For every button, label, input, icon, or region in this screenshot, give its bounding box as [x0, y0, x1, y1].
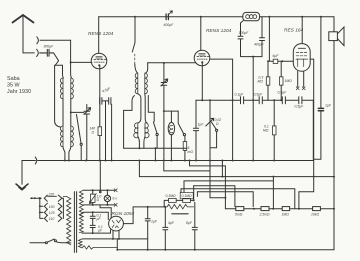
ground — [16, 184, 28, 189]
wire line y100 drop — [312, 100, 314, 159]
tap 125 — [44, 209, 61, 215]
svg-text:MΩ: MΩ — [263, 129, 269, 133]
staircase L2 — [139, 161, 334, 177]
wire tube1 leg — [99, 66, 101, 101]
wire L1a bottom down — [62, 99, 64, 126]
wire to coil3 top — [135, 64, 138, 73]
tap 150 — [44, 203, 61, 209]
rail after box — [260, 16, 334, 18]
svg-text:Jahr 1930: Jahr 1930 — [7, 89, 31, 95]
svg-text:0,1MΩ: 0,1MΩ — [182, 194, 193, 198]
svg-text:Ω: Ω — [92, 131, 95, 135]
switch antenna — [54, 53, 59, 66]
transformer core — [74, 192, 76, 253]
svg-text:RGN 1054: RGN 1054 — [112, 211, 135, 217]
boxed label outline — [180, 192, 193, 198]
svg-text:6µF: 6µF — [273, 54, 280, 58]
svg-text:125: 125 — [49, 211, 55, 215]
stub heater to tube top — [100, 205, 111, 218]
coil L1a — [60, 78, 63, 99]
svg-text:400µF: 400µF — [164, 23, 175, 27]
coil L4b — [145, 123, 149, 138]
svg-text:300µF: 300µF — [44, 45, 55, 49]
svg-text:220: 220 — [48, 193, 55, 197]
coil L3b — [145, 73, 148, 94]
resistor 2.5M — [261, 207, 269, 211]
svg-text:mΩ: mΩ — [188, 150, 194, 154]
RGN filament legs — [113, 230, 119, 239]
svg-text:RES 164: RES 164 — [284, 28, 304, 34]
IF secondary right with cap 400pF — [260, 17, 265, 57]
svg-text:10kΩ: 10kΩ — [311, 213, 319, 217]
IF transformer box — [243, 12, 260, 20]
selector 220 — [44, 195, 47, 201]
variable capacitor C-tune2 — [161, 63, 167, 111]
jack bus — [35, 157, 37, 164]
svg-text:1MΩ: 1MΩ — [282, 213, 290, 217]
svg-text:0,1µF: 0,1µF — [235, 93, 245, 97]
resistor 10k — [313, 207, 321, 211]
node rail x135 — [134, 16, 136, 18]
wire grid to tube1 — [71, 61, 92, 63]
wire coil3 bottoms down — [138, 94, 141, 123]
svg-text:Ω: Ω — [97, 198, 100, 202]
node grid line tube1 — [70, 61, 72, 63]
tube V4 RGN1054 — [109, 216, 124, 231]
coil L4a — [134, 123, 138, 138]
svg-text:6 v: 6 v — [113, 197, 118, 201]
svg-text:0,5µF: 0,5µF — [295, 105, 305, 109]
cap 1uF field — [145, 207, 150, 239]
capacitor 0.5uF b — [282, 97, 285, 104]
line y111 — [164, 110, 178, 112]
svg-text:100µF: 100µF — [239, 31, 250, 35]
svg-text:1µF: 1µF — [198, 123, 205, 127]
line y148 — [124, 147, 187, 149]
tube V1 RENS1204 — [91, 53, 107, 69]
HT bottom lead — [82, 232, 110, 234]
node rail x200.8 — [200, 16, 202, 18]
wire RGN output — [123, 207, 164, 224]
main bus — [38, 160, 314, 162]
bus nodes — [64, 160, 66, 162]
cap 4uF — [163, 207, 168, 250]
jack J1 — [37, 49, 39, 56]
variable capacitor C-tune1 — [84, 105, 90, 161]
wire tube2 anode right — [210, 59, 233, 160]
svg-text:1MΩ: 1MΩ — [285, 79, 293, 83]
wire secondary bottom — [241, 56, 262, 58]
svg-text:Ω: Ω — [216, 122, 219, 126]
antenna — [13, 15, 34, 23]
capacitor 0.5uF c — [299, 97, 302, 104]
wire left end cap 1uF to bus — [193, 100, 198, 160]
caps 0.1uF pair RGN — [90, 212, 95, 233]
svg-text:RENS 1204: RENS 1204 — [88, 31, 114, 37]
svg-text:1µF: 1µF — [151, 220, 158, 224]
coil L1b — [71, 78, 74, 99]
resistor 1M grid leak — [280, 61, 282, 77]
coil L3a — [135, 73, 138, 94]
tube V2 RENS1204 — [194, 50, 210, 66]
resistor 0.5M vertical — [183, 142, 187, 151]
routing rectangle left — [124, 96, 135, 149]
trimmer capacitor 400pF — [166, 14, 168, 20]
coil L2a — [60, 126, 63, 147]
cell oval component — [168, 122, 174, 134]
pot heater — [90, 194, 95, 202]
jack J2 upper — [37, 37, 39, 44]
svg-text:Saba: Saba — [7, 76, 20, 82]
heater feed from bus — [99, 161, 101, 191]
switch wave2 — [132, 17, 135, 52]
wire tube3 top to rail — [301, 17, 303, 44]
heater rails — [83, 190, 114, 205]
wire L2b to bus — [69, 147, 71, 161]
wire switch down to coil — [55, 66, 61, 127]
potentiometer 0.02M — [209, 100, 211, 160]
svg-text:35 W: 35 W — [7, 83, 20, 89]
svg-text:110: 110 — [49, 217, 55, 221]
decoupling line y100 — [196, 99, 313, 101]
coil L2b — [71, 126, 74, 147]
wire jack2 to vertical — [40, 39, 71, 41]
tube3 heater legs — [298, 71, 304, 86]
svg-text:8µF: 8µF — [186, 221, 193, 225]
wire blade tip to left coil — [55, 64, 63, 66]
wire drop x233 from line — [232, 99, 234, 101]
HT winding — [79, 213, 83, 233]
svg-text:MΩ: MΩ — [258, 80, 264, 84]
capacitor 300pF — [40, 49, 54, 56]
wire L4 bottoms join — [138, 137, 145, 149]
wire tube1 anode up — [98, 17, 100, 54]
B+ riser — [193, 186, 195, 201]
mains terminals — [31, 197, 33, 199]
svg-text:400µF: 400µF — [254, 43, 265, 47]
svg-text:5mΩ: 5mΩ — [235, 213, 243, 217]
svg-text:2,5mΩ: 2,5mΩ — [259, 213, 271, 217]
svg-text:0,5µF: 0,5µF — [254, 93, 264, 97]
speaker — [333, 17, 335, 32]
wire tube3 anode — [299, 59, 314, 209]
resistor 0.1M vertical x274 — [273, 100, 275, 126]
filter chain resistors — [164, 200, 168, 207]
bleeder zigzag — [164, 204, 194, 209]
svg-text:4µF: 4µF — [168, 221, 175, 225]
resistor 0.3M vertical — [267, 61, 269, 77]
wire L1b bottom down — [70, 99, 72, 126]
switch waveband — [77, 115, 82, 144]
resistor 140ohm vertical — [99, 101, 101, 127]
wire antenna to jack — [23, 52, 34, 54]
resistor row — [225, 208, 334, 210]
staircase L1 — [190, 161, 226, 209]
heater return line — [82, 238, 148, 240]
capacitor pair 4.5uF — [100, 98, 111, 105]
tap 110 — [44, 215, 61, 221]
wire vertical to coil top — [70, 40, 72, 62]
wire L2a to bus — [63, 147, 65, 161]
wire tap down — [252, 57, 254, 161]
secondary heater winding — [79, 190, 83, 217]
wire antenna down — [22, 17, 24, 53]
wire drop to valve cell — [170, 111, 172, 122]
bottom bus — [117, 249, 334, 251]
rect winding — [79, 239, 83, 248]
svg-text:1µF: 1µF — [325, 104, 332, 108]
lamp — [104, 195, 110, 201]
tube V3 RES164 — [293, 44, 310, 72]
resistor 5M — [236, 207, 244, 211]
top rail — [99, 16, 243, 18]
svg-text:0,5µF: 0,5µF — [278, 91, 288, 95]
staircase L3 — [164, 161, 210, 171]
capacitor 6000pF box — [269, 60, 273, 62]
cap 8uF — [192, 202, 197, 249]
svg-text:RENS 1204: RENS 1204 — [206, 28, 232, 34]
nested path from filter — [194, 186, 235, 207]
wire drop x111.6 — [111, 104, 113, 160]
wire tube2 top to rail — [200, 17, 202, 51]
hum resistor zigzag — [82, 246, 117, 249]
transformer primary — [63, 197, 71, 245]
wire tube2 cathode down — [201, 63, 203, 100]
drop from L2 to row — [272, 177, 274, 209]
svg-text:0,3MΩ: 0,3MΩ — [166, 194, 177, 198]
wire rail to coupling cap — [268, 17, 270, 62]
svg-text:150: 150 — [49, 205, 55, 209]
capacitor 0.1uF — [241, 97, 244, 104]
switch coil4 — [148, 96, 154, 122]
wire bus drop x155 — [154, 148, 156, 160]
switch cell — [178, 111, 183, 134]
HT top lead — [83, 212, 108, 219]
wire rail drop x321 with cap 1uF — [313, 17, 321, 160]
grid line tube2 — [148, 62, 196, 64]
wire coil3b top to grid line — [146, 63, 148, 73]
IF secondary left with cap 100pF — [238, 21, 243, 57]
wire tap to varcap — [71, 111, 84, 113]
capacitor 0.5uF a — [259, 97, 262, 104]
mains switch — [30, 242, 45, 244]
resistor 1M row — [282, 207, 289, 211]
wire drop x105.5 — [105, 101, 107, 161]
